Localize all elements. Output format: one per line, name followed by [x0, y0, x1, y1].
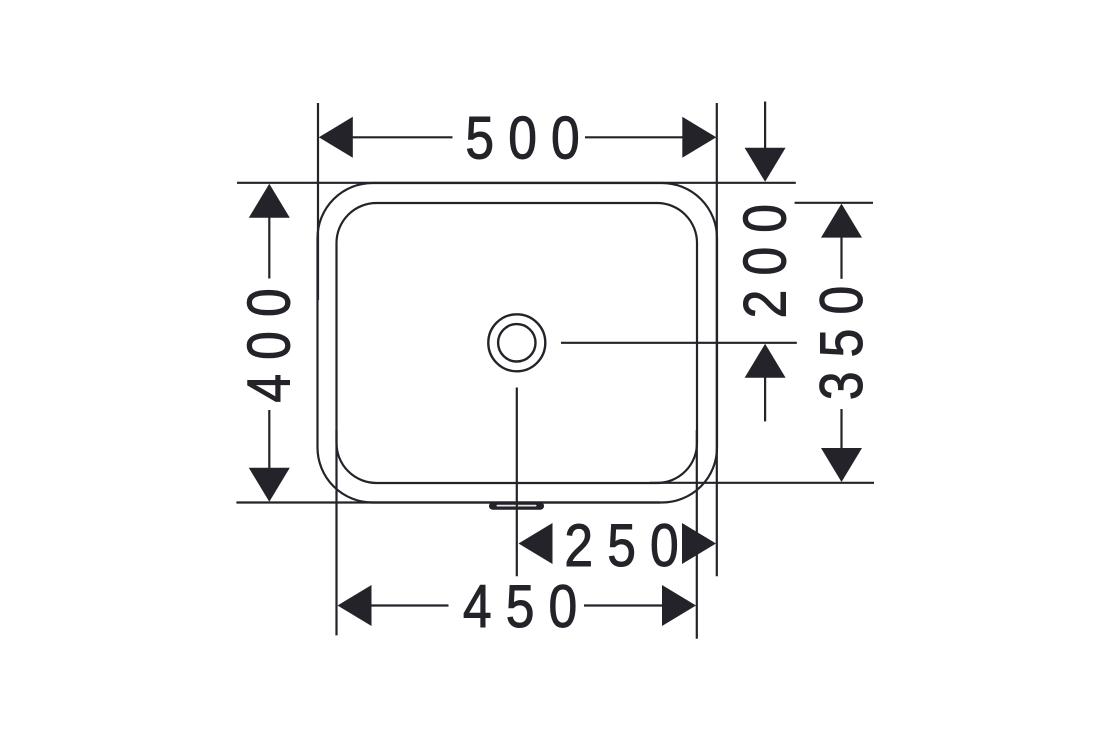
svg-text:500: 500 [465, 104, 593, 172]
svg-text:450: 450 [463, 572, 591, 640]
svg-text:350: 350 [807, 272, 875, 400]
svg-text:200: 200 [731, 190, 799, 318]
svg-text:400: 400 [235, 274, 303, 402]
svg-text:250: 250 [564, 511, 692, 579]
